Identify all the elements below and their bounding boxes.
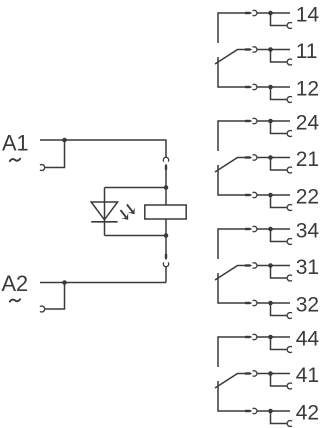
contact group 3: rail upper segment [218, 229, 245, 259]
wire 11 socket stub [271, 50, 288, 63]
contact group 3: rail lower segment [218, 273, 245, 303]
contact 42: socket [253, 408, 257, 413]
wire 34 to terminal [257, 228, 290, 230]
wire socket down to A2 wire [165, 267, 167, 283]
contact group 3: changeover lever [215, 266, 245, 281]
contact 31: plug [245, 264, 250, 266]
node 34 junction [268, 227, 273, 232]
contact 44: plug [245, 336, 250, 338]
socket of plug-in disconnect, coil bottom [163, 262, 168, 266]
svg-text:31: 31 [296, 256, 319, 279]
wire 34 socket stub [271, 229, 288, 242]
socket contact at 42 [287, 421, 292, 427]
svg-text:A2: A2 [2, 271, 29, 296]
node 24 junction [268, 119, 273, 124]
relay coil K1 [145, 205, 186, 219]
contact 34: plug [245, 228, 250, 230]
wire 11 to terminal [257, 49, 290, 51]
socket contact at A2 [40, 306, 45, 312]
wire 41 socket stub [271, 374, 288, 387]
contact 32: socket [253, 300, 257, 305]
contact group 2: changeover lever [215, 158, 245, 173]
wire LED branch top [105, 187, 167, 189]
AC symbol at A1 [10, 159, 20, 161]
wire 31 to terminal [257, 265, 290, 267]
wire LED branch bottom [105, 235, 167, 237]
svg-text:24: 24 [296, 112, 320, 135]
node 44 junction [268, 335, 273, 340]
contact 44: socket [253, 334, 257, 339]
contact 12: plug [245, 86, 250, 88]
node 31 junction [268, 263, 273, 268]
socket contact at 31 [287, 275, 292, 281]
node 41 junction [268, 371, 273, 376]
contact 21: socket [253, 155, 257, 160]
contact group 2: rail upper segment [218, 121, 245, 151]
contact 11: plug [245, 48, 250, 50]
contact group 1: changeover lever [215, 50, 245, 65]
contact 42: plug [245, 410, 250, 412]
contact 14: plug [245, 12, 250, 14]
node A2 junction [62, 280, 67, 285]
svg-text:11: 11 [296, 40, 318, 63]
svg-text:44: 44 [296, 328, 320, 351]
socket contact at 44 [287, 347, 292, 353]
node 21 junction [268, 155, 273, 160]
socket contact at 41 [287, 383, 292, 389]
svg-text:42: 42 [296, 402, 319, 425]
node coil bottom [164, 233, 169, 238]
socket contact at 12 [287, 97, 292, 103]
wire 21 socket stub [271, 158, 288, 171]
wire 24 to terminal [257, 120, 290, 122]
wire 24 socket stub [271, 121, 288, 134]
contact group 4: rail lower segment [218, 381, 245, 411]
contact 24: plug [245, 120, 250, 122]
svg-text:32: 32 [296, 294, 319, 317]
contact group 4: rail upper segment [218, 337, 245, 367]
socket contact at 22 [287, 205, 292, 211]
contact group 1: rail lower segment [218, 57, 245, 87]
contact 31: socket [253, 263, 257, 268]
wire A2 horizontal [40, 282, 166, 284]
socket contact at 21 [287, 167, 292, 173]
contact 22: socket [253, 192, 257, 197]
node coil top [164, 185, 169, 190]
socket contact at 14 [287, 22, 292, 28]
contact 12: socket [253, 84, 257, 89]
wire 12 socket stub [271, 87, 288, 100]
socket contact at 11 [287, 59, 292, 65]
wire 31 socket stub [271, 266, 288, 279]
svg-text:21: 21 [296, 148, 319, 171]
contact 11: socket [253, 47, 257, 52]
wire A2 socket stub [45, 283, 65, 310]
node 11 junction [268, 47, 273, 52]
wire 22 to terminal [257, 194, 290, 196]
contact group 2: rail lower segment [218, 165, 245, 195]
svg-text:12: 12 [296, 78, 319, 101]
AC symbol at A2 [10, 299, 20, 301]
LED triangle (anode) [91, 202, 117, 220]
svg-text:A1: A1 [2, 130, 29, 155]
svg-text:41: 41 [296, 364, 319, 387]
wire A1 socket stub [45, 140, 65, 168]
wire 44 socket stub [271, 337, 288, 350]
node 22 junction [268, 193, 273, 198]
wire 44 to terminal [257, 336, 290, 338]
wire 42 to terminal [257, 410, 290, 412]
wire 41 to terminal [257, 373, 290, 375]
wire 42 socket stub [271, 411, 288, 424]
wire 14 socket stub [271, 13, 288, 26]
contact 21: plug [245, 156, 250, 158]
LED cathode bar [91, 221, 117, 223]
wire 32 to terminal [257, 302, 290, 304]
wire 22 socket stub [271, 195, 288, 208]
wire 32 socket stub [271, 303, 288, 316]
wire coil bottom node to plug [165, 236, 167, 255]
contact group 4: changeover lever [215, 374, 245, 389]
socket of plug-in disconnect, coil top [163, 157, 168, 161]
plug of plug-in disconnect, coil bottom [165, 254, 167, 258]
contact 22: plug [245, 194, 250, 196]
node 14 junction [268, 11, 273, 16]
contact group 1: rail upper segment [218, 13, 245, 43]
contact 32: plug [245, 302, 250, 304]
wire 14 to terminal [257, 12, 290, 14]
socket contact at A1 [40, 165, 45, 171]
wire coil vertical [165, 188, 167, 236]
socket contact at 24 [287, 131, 292, 137]
wire 12 to terminal [257, 86, 290, 88]
socket contact at 34 [287, 239, 292, 245]
wire LED branch left vertical [104, 188, 106, 236]
contact 14: socket [253, 10, 257, 15]
contact 24: socket [253, 118, 257, 123]
contact 41: plug [245, 372, 250, 374]
socket contact at 32 [287, 313, 292, 319]
wire A1 horizontal and down to coil [40, 140, 166, 157]
contact 41: socket [253, 371, 257, 376]
contact 34: socket [253, 226, 257, 231]
node 42 junction [268, 409, 273, 414]
svg-text:22: 22 [296, 186, 319, 209]
node 32 junction [268, 301, 273, 306]
LED light arrow 1 [121, 210, 127, 217]
svg-text:14: 14 [296, 4, 320, 27]
plug of plug-in disconnect, coil top [165, 166, 167, 170]
wire 21 to terminal [257, 157, 290, 159]
wire plug to coil top node [165, 170, 167, 188]
LED light arrow 2 [127, 204, 133, 211]
node A1 junction [62, 138, 67, 143]
node 12 junction [268, 85, 273, 90]
svg-text:34: 34 [296, 220, 320, 243]
